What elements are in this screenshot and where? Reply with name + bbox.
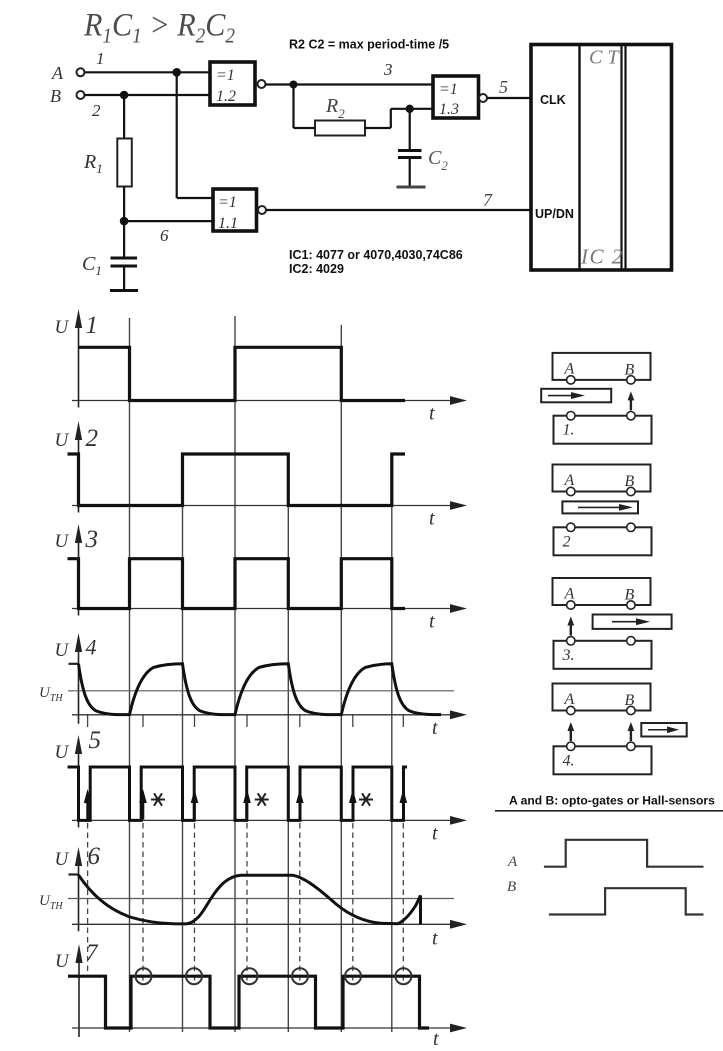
svg-text:3.: 3. [562,647,575,664]
sensor diagram 1. bottom plate [554,412,652,444]
count event circle 6 [395,968,411,984]
waveform 4 y-axis [55,633,97,724]
count event circle 4 [292,968,308,984]
wire 1 (input A to gate 1.2) [85,49,211,72]
sensor diagram 1. top plate [553,353,651,384]
svg-text:C T: C T [589,47,620,69]
svg-text:IC1: 4077 or 4070,4030,74C86: IC1: 4077 or 4070,4030,74C86 [289,248,463,262]
waveform 3 t-axis [72,604,467,632]
gridline t5 [340,325,342,1032]
asterisk mark 2 [255,793,269,805]
waveform 6 trace (C2 voltage) [79,875,421,924]
svg-text:6: 6 [160,226,169,245]
XOR gate U1.3 [433,76,479,118]
sensor diagram 2 moving vane [562,501,638,513]
input terminal A [51,63,85,83]
clock edge arrow 3 [191,789,199,819]
svg-text:A: A [564,586,575,603]
svg-text:4: 4 [86,635,97,660]
waveform 7 t-axis [72,1024,467,1050]
input terminal B [50,86,85,106]
sensor diagram 4. top plate [553,684,651,715]
svg-text:UP/DN: UP/DN [535,207,574,221]
mini waveform A label [507,854,518,870]
svg-text:A: A [51,63,64,83]
svg-text:IC2: 4029: IC2: 4029 [289,262,344,276]
wire 7 (gate 1.1 to UP/DN) [266,190,531,210]
svg-text:6: 6 [88,843,101,870]
svg-text:7: 7 [483,190,493,210]
note R2C2 = max period-time /5 [289,38,449,52]
waveform 4 trace (C1 voltage) [79,664,442,715]
clock edge arrow 7 [400,789,408,819]
threshold line UTH (diagram 4) [39,685,454,704]
clock edge arrow 2 [139,789,147,819]
wire node to C2 [409,109,411,150]
sensor diagram 4. beam arrow [628,722,635,741]
svg-text:t: t [429,611,435,633]
svg-text:U: U [55,430,70,451]
sensor diagram 3. bottom plate [554,637,652,669]
svg-text:t: t [432,717,438,739]
svg-text:=1: =1 [216,67,235,84]
count event circle 1 [136,968,152,984]
clock edge arrow 4 [243,789,251,819]
event line t'4 [299,714,301,983]
svg-text:2: 2 [86,425,99,452]
wire 3 (gate 1.2 output to gate 1.3) [266,60,434,85]
waveform 2 t-axis [72,501,467,529]
wire from node A down to gate 1.1 input [177,72,213,198]
svg-text:4.: 4. [563,752,575,769]
ground symbol (C2) [397,186,426,189]
svg-text:R2 C2 = max period-time /5: R2 C2 = max period-time /5 [289,38,449,52]
wire R1 bottom to node 6 [123,187,125,258]
sensor diagram 3. beam arrow [567,617,574,636]
clock edge arrow 1 [84,789,92,819]
node junction 6 [120,217,129,226]
XOR gate U1.2 [210,62,255,105]
svg-text:1.3: 1.3 [439,101,459,118]
gridline t6 [391,454,393,1032]
counter IC2 [531,45,672,271]
capacitor C2 [398,147,448,173]
waveform 5 y-axis [55,727,102,827]
svg-text:1: 1 [86,312,99,339]
sensor diagram 4. moving vane [641,723,686,737]
clock edge arrow 5 [296,789,304,819]
event line t'6 [402,714,404,983]
threshold line UTH (diagram 6) [39,893,454,912]
waveform 5 t-axis [72,816,467,844]
mini waveform A trace [544,840,704,867]
svg-text:A: A [507,854,518,870]
sensor diagram 4. bottom plate [554,742,652,774]
caption underline [495,810,723,812]
waveform 4 t-axis [72,710,467,738]
mini waveform B label [507,879,516,895]
node junction on wire 3 [290,81,298,89]
gridline t3 [234,316,236,1032]
waveform 7 y-axis [55,940,99,1037]
svg-text:1.2: 1.2 [216,88,236,105]
event line t'1 [142,714,144,983]
waveform 3 trace (XOR of A,B) [68,559,406,609]
wire 2 (input B to gate 1.2) [85,95,211,120]
gridline t1 [129,318,131,1032]
sensor diagram 3. moving vane [593,615,672,629]
svg-text:U: U [55,317,70,338]
svg-text:t: t [429,403,435,425]
svg-text:A: A [564,360,575,377]
svg-text:5: 5 [499,77,508,97]
sensor diagram 1. moving vane [541,389,611,403]
asterisk mark 3 [359,793,373,805]
waveform 5 trace (clock pulses) [68,767,408,820]
svg-text:=1: =1 [439,81,458,98]
svg-text:3: 3 [85,526,99,553]
asterisk mark 1 [151,793,165,805]
svg-text:IC 2: IC 2 [580,245,624,269]
svg-text:A: A [564,691,575,708]
sensor diagram 4. beam arrow [567,722,574,741]
svg-text:U: U [55,849,70,870]
svg-text:U: U [55,951,70,972]
svg-text:2: 2 [92,101,101,120]
svg-text:t: t [432,822,438,844]
wire node 3 down to R2 [294,85,316,129]
count event circle 5 [345,968,361,984]
waveform 2 y-axis [55,421,99,513]
waveform 6 y-axis [55,843,101,931]
note IC1/IC2 types [289,248,463,276]
sensor diagram 1. beam arrow [628,391,635,410]
svg-text:=1: =1 [218,194,237,211]
capacitor C1 [82,253,137,278]
node junction on wire B [120,91,129,100]
waveform 6 t-axis [72,920,467,949]
wire 5 (gate 1.3 to CLK) [487,77,531,98]
svg-text:U: U [55,640,70,661]
waveform 1 trace (signal A) [79,347,406,400]
svg-text:A: A [564,472,575,489]
event line t'5 [352,714,354,983]
svg-text:U: U [55,742,70,763]
inverter bubble gate 1.2 output [258,80,266,88]
svg-text:3: 3 [383,60,393,79]
gridline t2 [182,454,184,1032]
wire 6 (node to gate 1.1 lower input) [124,221,213,245]
svg-text:CLK: CLK [540,93,566,107]
resistor R2 [315,95,365,136]
sensor diagram 2 top plate [553,465,651,496]
count event circle 3 [242,968,258,984]
svg-text:B: B [50,86,61,106]
wire node B down to R1 [123,95,125,139]
waveform 1 y-axis [55,309,99,408]
inverter bubble gate 1.1 output [258,206,266,214]
svg-text:5: 5 [89,727,102,754]
svg-text:1.: 1. [563,422,575,439]
event line t'0 [87,714,89,972]
svg-text:t: t [429,508,435,530]
clock edge arrow 6 [349,789,357,819]
wire R2 to gate 1.3 lower input [365,109,433,128]
ground symbol (C1) [110,289,138,292]
caption A and B sensors [509,794,715,808]
svg-text:B: B [507,879,516,895]
event line t'3 [246,714,248,983]
waveform 2 trace (signal B) [68,454,406,506]
waveform 3 y-axis [55,524,99,616]
waveform 4 top level tick [69,663,79,665]
svg-text:t: t [432,927,438,949]
sensor diagram 3. top plate [553,578,651,609]
svg-text:t: t [433,1028,439,1050]
waveform 1 t-axis [72,396,467,424]
svg-text:2: 2 [563,533,571,550]
event line t'2 [194,714,196,983]
waveform 7 trace (counter output) [68,976,429,1028]
svg-text:A and B: opto-gates or Hall-se: A and B: opto-gates or Hall-sensors [509,794,715,808]
sensor diagram 2 bottom plate [554,523,652,555]
formula R1C1 > R2C2 [83,6,235,47]
node junction on wire A [172,68,181,77]
wire C1 to ground [123,266,125,290]
gridline t4 [287,454,289,1032]
svg-text:U: U [55,531,70,552]
waveform 6 top level tick [69,873,79,875]
svg-text:7: 7 [86,940,99,965]
count event circle 2 [186,968,202,984]
inverter bubble gate 1.3 output [479,94,487,102]
wire C2 to ground [409,158,411,187]
XOR gate U1.1 [213,189,257,232]
svg-text:1: 1 [96,49,105,68]
svg-text:1.1: 1.1 [218,215,238,232]
mini waveform B trace [549,888,704,914]
resistor R1 [83,139,132,187]
node junction at C2 [406,105,414,113]
